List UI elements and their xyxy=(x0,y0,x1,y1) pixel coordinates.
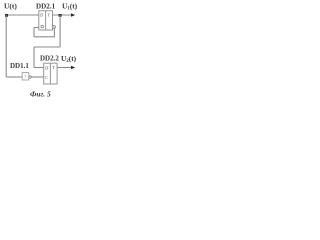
svg-text:D: D xyxy=(45,66,48,71)
wire: left branch to DD1.1 input xyxy=(6,76,22,78)
wire: DD1.1 output to DD2.2 C pin xyxy=(31,76,43,78)
svg-text:DD2.1: DD2.1 xyxy=(36,2,56,10)
wire: feedback across under DD2.1 xyxy=(34,36,54,38)
inverter DD1.1 xyxy=(22,73,29,80)
svg-text:Фиг. 5: Фиг. 5 xyxy=(30,90,51,99)
flip-flop U-block DD2.1 xyxy=(39,11,53,30)
wire: feedback up to C row xyxy=(33,28,35,37)
wire: inverse output down xyxy=(53,28,55,37)
arrowhead U2(t) output xyxy=(71,66,75,70)
junction: U(t) branch node xyxy=(5,14,8,17)
wire: DD2.1 Q output to U1(t) arrow xyxy=(53,14,73,16)
svg-text:DD2.2: DD2.2 xyxy=(40,55,59,63)
wire: Q1 branch across left xyxy=(34,46,60,48)
svg-text:C: C xyxy=(45,75,48,80)
arrowhead U1(t) output xyxy=(71,13,75,17)
wire: U(t) branch down left side xyxy=(5,15,7,77)
flip-flop U-block DD2.2 xyxy=(44,63,57,84)
wire: U(t) input to DD2.1 D pin xyxy=(5,14,39,16)
svg-text:U1(t): U1(t) xyxy=(62,1,78,11)
wire: into DD2.2 D pin xyxy=(34,67,44,69)
svg-text:DD1.1: DD1.1 xyxy=(10,62,29,70)
wire: Q1 branch down to DD2.2 D row xyxy=(33,47,35,68)
wire: feedback into DD2.1 C pin xyxy=(34,27,39,29)
wire: Q1 branch down xyxy=(59,15,61,47)
inversion bubble DD2.1 inverse output xyxy=(53,26,56,29)
svg-text:U2(t): U2(t) xyxy=(61,54,77,64)
svg-text:D: D xyxy=(40,13,43,18)
pin label C (DD2.1) drawn as small ring xyxy=(41,25,44,28)
wire: DD2.2 Q output to U2(t) arrow xyxy=(57,67,72,69)
inversion bubble DD1.1 output xyxy=(29,76,31,78)
junction: Q1 branch node xyxy=(59,14,62,17)
svg-text:U(t): U(t) xyxy=(4,1,17,10)
